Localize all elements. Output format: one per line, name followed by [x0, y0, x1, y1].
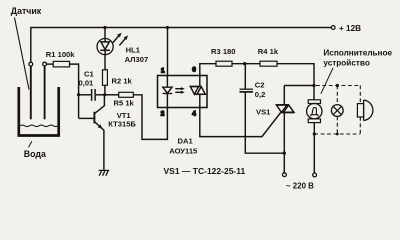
- svg-text:VS1 — ТС-122-25-11: VS1 — ТС-122-25-11: [164, 166, 246, 176]
- terminal sensor electrode 1: [29, 62, 33, 66]
- node: rail junction to HL1: [103, 26, 106, 29]
- opto triac inside DA1: [199, 76, 201, 87]
- electrode 1: [30, 66, 32, 119]
- resistor R2: [103, 70, 108, 86]
- wire R1 right lead down to C1/base node: [70, 64, 79, 118]
- wire motor to 220V: [313, 123, 315, 173]
- pointer Датчик: [15, 18, 30, 90]
- svg-text:Вода: Вода: [24, 149, 46, 159]
- wire VS1 cathode down to 220V: [283, 112, 285, 172]
- node lamp bottom: [336, 133, 339, 136]
- wire VS1 anode: [283, 86, 285, 105]
- HL1 emission arrow 1: [113, 35, 119, 42]
- electrode 2: [44, 66, 46, 119]
- svg-text:DA1: DA1: [178, 137, 194, 146]
- svg-text:1: 1: [161, 68, 165, 75]
- svg-text:HL1: HL1: [126, 46, 141, 55]
- motor M1 brush top: [308, 100, 320, 104]
- capacitor C2: [244, 64, 246, 89]
- opto light arrow 1: [175, 88, 181, 90]
- resistor R4: [260, 61, 277, 66]
- svg-text:АЛ307: АЛ307: [125, 55, 149, 64]
- svg-text:+ 12В: + 12В: [339, 24, 361, 33]
- transistor VT1: [93, 112, 95, 124]
- svg-text:R2 1k: R2 1k: [112, 76, 133, 85]
- node C1 left junction: [77, 93, 80, 96]
- wire R2 to node: [104, 85, 106, 95]
- bell HA1: [357, 104, 363, 117]
- lamp HL2: [331, 105, 343, 117]
- wire dashed lamp branch: [336, 86, 338, 105]
- motor M1: [307, 104, 322, 119]
- svg-text:КТ315Б: КТ315Б: [108, 120, 136, 129]
- node C2 top junction: [243, 62, 246, 65]
- svg-text:Датчик: Датчик: [11, 6, 42, 16]
- capacitor C1: [79, 94, 91, 96]
- svg-text:устройство: устройство: [323, 58, 369, 67]
- triac VS1: [276, 104, 289, 106]
- wire dashed top edge: [316, 85, 360, 87]
- motor M1 brush bottom: [308, 119, 320, 123]
- wire dashed bottom edge: [314, 133, 360, 135]
- svg-text:R1 100k: R1 100k: [46, 50, 75, 59]
- sensor tank: [19, 87, 59, 136]
- ground: [99, 169, 110, 171]
- node motor top: [312, 84, 315, 87]
- svg-text:С2: С2: [255, 81, 265, 90]
- opto light arrow 2: [175, 91, 181, 93]
- node dashed bottom left: [313, 132, 316, 135]
- pointer Вода: [29, 141, 32, 147]
- pointer Исполнительное устройство: [321, 68, 333, 94]
- resistor R1: [47, 63, 54, 65]
- resistor R3: [216, 61, 232, 66]
- svg-text:R5 1k: R5 1k: [114, 99, 135, 108]
- wire dashed right edge: [359, 86, 361, 104]
- op-amp U1 optocoupler DA1 box: [158, 76, 208, 108]
- wire HL1 to R2: [104, 55, 106, 70]
- wire R4 right down to motor node: [277, 64, 314, 86]
- svg-text:~ 220 В: ~ 220 В: [286, 181, 314, 190]
- svg-text:R4 1k: R4 1k: [258, 47, 279, 56]
- svg-text:4: 4: [192, 111, 196, 118]
- svg-text:6: 6: [192, 67, 196, 74]
- svg-text:VS1: VS1: [256, 107, 271, 116]
- wire R5 right to DA1 pin 2: [133, 95, 167, 140]
- LED HL1: [104, 28, 106, 39]
- HL1 emission arrow 2: [119, 38, 125, 45]
- svg-text:Исполнительное: Исполнительное: [323, 48, 392, 57]
- node: rail junction to DA1 pin 1: [166, 26, 169, 29]
- node lamp top: [336, 84, 339, 87]
- svg-text:АОУ115: АОУ115: [169, 147, 198, 156]
- node collector junction: [103, 93, 106, 96]
- wire R3 to R4: [232, 63, 260, 65]
- wire motor branch: [313, 86, 315, 100]
- terminal 220V left: [283, 173, 287, 177]
- svg-text:С1: С1: [84, 69, 94, 78]
- terminal +12V: [331, 26, 335, 30]
- terminal sensor electrode 2: [43, 62, 47, 66]
- opto LED inside DA1: [166, 76, 168, 88]
- svg-text:2: 2: [161, 111, 165, 118]
- water level: [20, 125, 58, 127]
- node C2 bottom junction: [283, 152, 286, 155]
- terminal 220V right: [313, 173, 317, 177]
- wire DA1 pin 4 to triac gate: [200, 108, 281, 137]
- wire base: [79, 117, 94, 119]
- resistor R5: [105, 94, 119, 96]
- wire DA1 pin 1 from rail: [167, 28, 169, 76]
- wire +12V rail from sensor electrode 1 up and across to +12V terminal: [31, 28, 332, 63]
- wire DA1 pin 6 up to R3: [200, 64, 216, 76]
- wire VS1 top to motor node: [284, 85, 314, 87]
- svg-text:R3 180: R3 180: [211, 47, 236, 56]
- svg-text:0,01: 0,01: [79, 79, 95, 88]
- svg-text:0,2: 0,2: [255, 90, 266, 99]
